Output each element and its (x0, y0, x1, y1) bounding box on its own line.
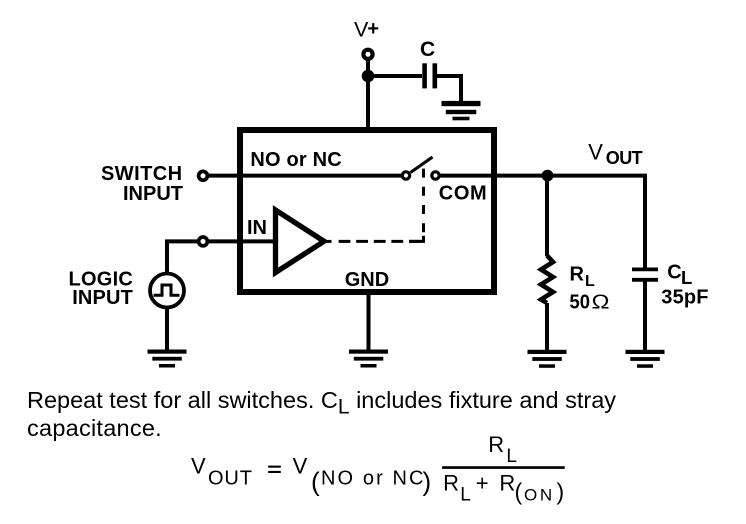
svg-text:(: ( (515, 479, 523, 505)
svg-text:NO or NC: NO or NC (250, 149, 341, 171)
wire V+ terminal to box top (366, 59, 370, 130)
svg-text:Ω: Ω (592, 292, 610, 314)
wire VOUT node to resistor RL (545, 176, 549, 256)
svg-text:L: L (681, 267, 692, 288)
formula fraction numerator RL (488, 432, 517, 467)
svg-text:L: L (585, 273, 595, 290)
svg-text:IN: IN (247, 217, 267, 239)
wire capacitor C to ground (437, 76, 461, 102)
wire GND pin to ground (367, 292, 371, 351)
node: VOUT junction dot (542, 170, 554, 182)
SWITCH INPUT terminal (199, 171, 208, 180)
note text line 2 (27, 415, 162, 441)
svg-text:R: R (488, 432, 504, 457)
svg-text:+: + (367, 18, 379, 40)
svg-text:COM: COM (439, 182, 487, 204)
ground (C decoupling) (442, 101, 481, 120)
svg-text:GND: GND (345, 269, 389, 291)
wire logic input terminal to buffer (207, 239, 275, 243)
svg-text:V: V (588, 139, 603, 164)
V+ label (354, 17, 379, 41)
svg-text:): ) (557, 479, 565, 505)
COM pin label (439, 182, 487, 204)
GND pin label (345, 269, 389, 291)
pulse generator source (150, 274, 184, 308)
svg-text:+: + (476, 470, 489, 495)
LOGIC INPUT terminal (199, 237, 208, 246)
RL value 50 ohm (570, 292, 610, 314)
svg-text:ON: ON (524, 485, 555, 504)
formula fraction denominator RL + R(ON) (443, 470, 564, 505)
svg-text:OUT: OUT (208, 468, 253, 490)
CL label (667, 262, 692, 288)
wire junction to capacitor C (368, 74, 422, 78)
svg-text:(: ( (311, 467, 320, 497)
ground (CL) (626, 350, 665, 368)
dashed actuation line from buffer to switch (326, 165, 424, 242)
wire COM to VOUT node and CL corner (440, 176, 645, 268)
switch lever (411, 157, 433, 173)
switch contact right circle (COM) (432, 172, 439, 179)
ground (logic input) (148, 350, 187, 368)
svg-text:L: L (506, 446, 517, 467)
svg-text:): ) (423, 467, 432, 497)
IN pin label (247, 217, 267, 239)
svg-text:L: L (460, 484, 471, 505)
IC box (240, 130, 494, 292)
ground (RL) (528, 350, 567, 368)
wire pulse source to ground (165, 308, 169, 352)
svg-text:NO or NC: NO or NC (321, 467, 426, 489)
formula fraction bar (442, 466, 565, 469)
svg-text:INPUT: INPUT (72, 287, 133, 309)
svg-text:C: C (420, 38, 435, 61)
formula VOUT = V(NO or NC) (191, 454, 431, 497)
node: V+ junction dot (362, 70, 375, 83)
note text line 1 (27, 387, 616, 419)
SWITCH INPUT label (101, 163, 183, 205)
wire capacitor CL to ground (643, 282, 647, 352)
svg-text:OUT: OUT (606, 148, 643, 168)
svg-text:capacitance.: capacitance. (27, 415, 162, 441)
wire switch input terminal to switch contact (207, 174, 402, 178)
pulse waveform glyph (154, 285, 180, 295)
wire pulse source to logic terminal (167, 241, 199, 273)
svg-text:35pF: 35pF (661, 287, 708, 309)
svg-text:SWITCH: SWITCH (101, 163, 183, 185)
svg-text:Repeat test for all switches.: Repeat test for all switches. CL include… (27, 387, 616, 419)
LOGIC INPUT label (69, 269, 134, 310)
svg-text:V: V (191, 454, 206, 479)
svg-text:C: C (667, 262, 681, 284)
svg-text:R: R (499, 470, 515, 495)
svg-text:R: R (570, 264, 585, 286)
svg-text:50: 50 (570, 292, 590, 314)
switch contact left circle (402, 172, 409, 179)
C value label (420, 38, 435, 61)
CL value 35pF (661, 287, 708, 309)
VOUT label (588, 139, 642, 168)
RL label (570, 264, 596, 290)
ground (GND pin) (349, 350, 388, 368)
wire resistor RL to ground (545, 303, 549, 351)
capacitor C (425, 63, 435, 88)
svg-text:INPUT: INPUT (123, 183, 183, 205)
V+ terminal (363, 50, 372, 59)
capacitor CL plates (632, 269, 658, 279)
NO or NC pin label (250, 149, 341, 171)
resistor RL zigzag (541, 256, 553, 304)
buffer op-amp triangle (276, 210, 325, 273)
svg-text:V: V (293, 454, 308, 479)
svg-text:R: R (443, 470, 459, 495)
